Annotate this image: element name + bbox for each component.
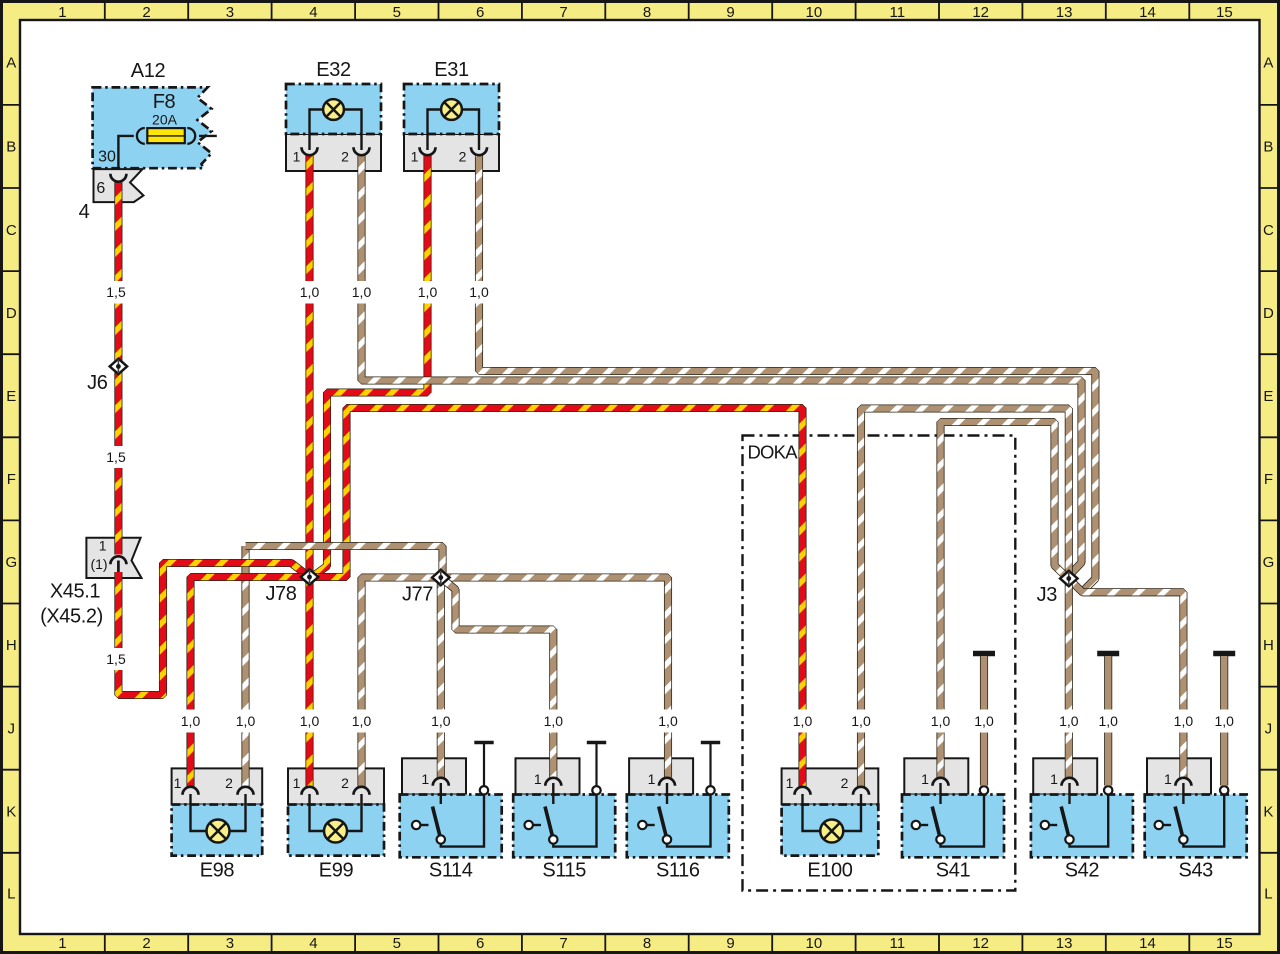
svg-text:1,0: 1,0 xyxy=(300,713,320,729)
svg-text:A: A xyxy=(1263,55,1273,72)
svg-text:7: 7 xyxy=(559,4,567,21)
svg-text:1,0: 1,0 xyxy=(544,713,564,729)
svg-text:1: 1 xyxy=(534,771,542,787)
svg-text:4: 4 xyxy=(79,201,90,223)
svg-text:1,0: 1,0 xyxy=(851,713,871,729)
svg-text:9: 9 xyxy=(726,4,734,21)
svg-text:1: 1 xyxy=(99,538,107,554)
svg-text:L: L xyxy=(1264,886,1272,903)
svg-text:30: 30 xyxy=(98,149,116,166)
svg-text:E98: E98 xyxy=(200,860,235,882)
svg-text:J77: J77 xyxy=(402,584,433,606)
svg-text:14: 14 xyxy=(1139,4,1156,21)
svg-text:1,0: 1,0 xyxy=(1059,713,1079,729)
svg-text:12: 12 xyxy=(972,4,989,21)
svg-text:1: 1 xyxy=(293,149,301,165)
svg-text:1: 1 xyxy=(421,771,429,787)
svg-text:J6: J6 xyxy=(87,372,108,394)
svg-text:1,0: 1,0 xyxy=(974,713,994,729)
svg-text:1,0: 1,0 xyxy=(418,284,438,300)
svg-text:5: 5 xyxy=(393,935,401,952)
svg-text:C: C xyxy=(6,222,17,239)
svg-text:14: 14 xyxy=(1139,935,1156,952)
svg-text:K: K xyxy=(6,804,16,821)
svg-text:J3: J3 xyxy=(1037,584,1058,606)
svg-text:(1): (1) xyxy=(90,556,107,572)
svg-text:11: 11 xyxy=(890,4,906,21)
svg-text:15: 15 xyxy=(1216,4,1233,21)
svg-text:1,0: 1,0 xyxy=(352,284,372,300)
svg-text:S41: S41 xyxy=(936,860,971,882)
svg-text:1: 1 xyxy=(174,775,182,791)
svg-text:4: 4 xyxy=(309,4,317,21)
svg-text:3: 3 xyxy=(226,4,234,21)
svg-text:10: 10 xyxy=(806,4,823,21)
svg-text:8: 8 xyxy=(643,935,651,952)
svg-text:1,0: 1,0 xyxy=(300,284,320,300)
svg-text:2: 2 xyxy=(341,775,349,791)
svg-text:5: 5 xyxy=(393,4,401,21)
svg-text:1,0: 1,0 xyxy=(1098,713,1118,729)
svg-text:1,0: 1,0 xyxy=(431,713,451,729)
svg-text:F: F xyxy=(7,471,16,488)
svg-text:J: J xyxy=(1265,720,1273,737)
svg-text:1,0: 1,0 xyxy=(931,713,951,729)
svg-text:1,5: 1,5 xyxy=(106,449,126,465)
svg-text:S114: S114 xyxy=(429,860,473,882)
svg-text:F: F xyxy=(1264,471,1273,488)
svg-text:10: 10 xyxy=(806,935,823,952)
svg-text:1: 1 xyxy=(1164,771,1172,787)
svg-text:H: H xyxy=(1263,637,1274,654)
svg-text:7: 7 xyxy=(559,935,567,952)
svg-text:1: 1 xyxy=(411,149,419,165)
svg-text:12: 12 xyxy=(972,935,989,952)
svg-text:1: 1 xyxy=(293,775,301,791)
svg-text:X45.1: X45.1 xyxy=(50,581,101,603)
svg-text:K: K xyxy=(1263,804,1273,821)
svg-text:1: 1 xyxy=(648,771,656,787)
svg-text:8: 8 xyxy=(643,4,651,21)
svg-text:4: 4 xyxy=(309,935,317,952)
svg-text:1: 1 xyxy=(58,935,66,952)
svg-text:15: 15 xyxy=(1216,935,1233,952)
svg-text:1,5: 1,5 xyxy=(106,651,126,667)
svg-text:S42: S42 xyxy=(1065,860,1100,882)
svg-text:6: 6 xyxy=(96,180,105,197)
svg-text:1,5: 1,5 xyxy=(106,284,126,300)
svg-text:E31: E31 xyxy=(434,59,469,81)
svg-text:G: G xyxy=(5,554,17,571)
svg-text:1,0: 1,0 xyxy=(793,713,813,729)
svg-text:1,0: 1,0 xyxy=(1214,713,1234,729)
svg-text:E99: E99 xyxy=(319,860,354,882)
svg-text:2: 2 xyxy=(142,935,150,952)
svg-text:1,0: 1,0 xyxy=(1174,713,1194,729)
svg-text:2: 2 xyxy=(225,775,233,791)
svg-text:(X45.2): (X45.2) xyxy=(40,606,103,628)
svg-text:1: 1 xyxy=(786,775,794,791)
svg-text:1: 1 xyxy=(921,771,929,787)
svg-text:1: 1 xyxy=(58,4,66,21)
svg-text:S116: S116 xyxy=(656,860,700,882)
svg-text:1,0: 1,0 xyxy=(236,713,256,729)
svg-text:A12: A12 xyxy=(131,60,166,82)
svg-text:A: A xyxy=(6,55,16,72)
svg-text:DOKA: DOKA xyxy=(748,442,799,463)
svg-text:1,0: 1,0 xyxy=(352,713,372,729)
svg-text:D: D xyxy=(1263,305,1274,322)
svg-text:J: J xyxy=(8,720,16,737)
svg-text:H: H xyxy=(6,637,17,654)
svg-text:13: 13 xyxy=(1056,4,1073,21)
svg-text:E32: E32 xyxy=(316,59,351,81)
svg-text:S115: S115 xyxy=(542,860,586,882)
svg-text:6: 6 xyxy=(476,4,484,21)
svg-text:D: D xyxy=(6,305,17,322)
svg-text:1,0: 1,0 xyxy=(181,713,201,729)
svg-text:B: B xyxy=(6,139,16,156)
svg-text:S43: S43 xyxy=(1179,860,1214,882)
svg-text:13: 13 xyxy=(1056,935,1073,952)
svg-text:E: E xyxy=(1263,388,1273,405)
svg-text:E: E xyxy=(6,388,16,405)
svg-text:1: 1 xyxy=(1050,771,1058,787)
svg-text:6: 6 xyxy=(476,935,484,952)
svg-text:J78: J78 xyxy=(265,583,296,605)
svg-text:C: C xyxy=(1263,222,1274,239)
svg-text:1,0: 1,0 xyxy=(658,713,678,729)
svg-text:2: 2 xyxy=(142,4,150,21)
svg-text:B: B xyxy=(1263,139,1273,156)
svg-text:1,0: 1,0 xyxy=(469,284,489,300)
svg-text:G: G xyxy=(1263,554,1275,571)
svg-text:2: 2 xyxy=(841,775,849,791)
svg-text:9: 9 xyxy=(726,935,734,952)
svg-text:3: 3 xyxy=(226,935,234,952)
svg-text:20A: 20A xyxy=(152,112,178,128)
svg-text:F8: F8 xyxy=(153,91,176,113)
svg-text:11: 11 xyxy=(890,935,906,952)
svg-text:2: 2 xyxy=(459,149,467,165)
svg-text:L: L xyxy=(7,886,15,903)
svg-text:E100: E100 xyxy=(807,860,852,882)
svg-text:2: 2 xyxy=(341,149,349,165)
